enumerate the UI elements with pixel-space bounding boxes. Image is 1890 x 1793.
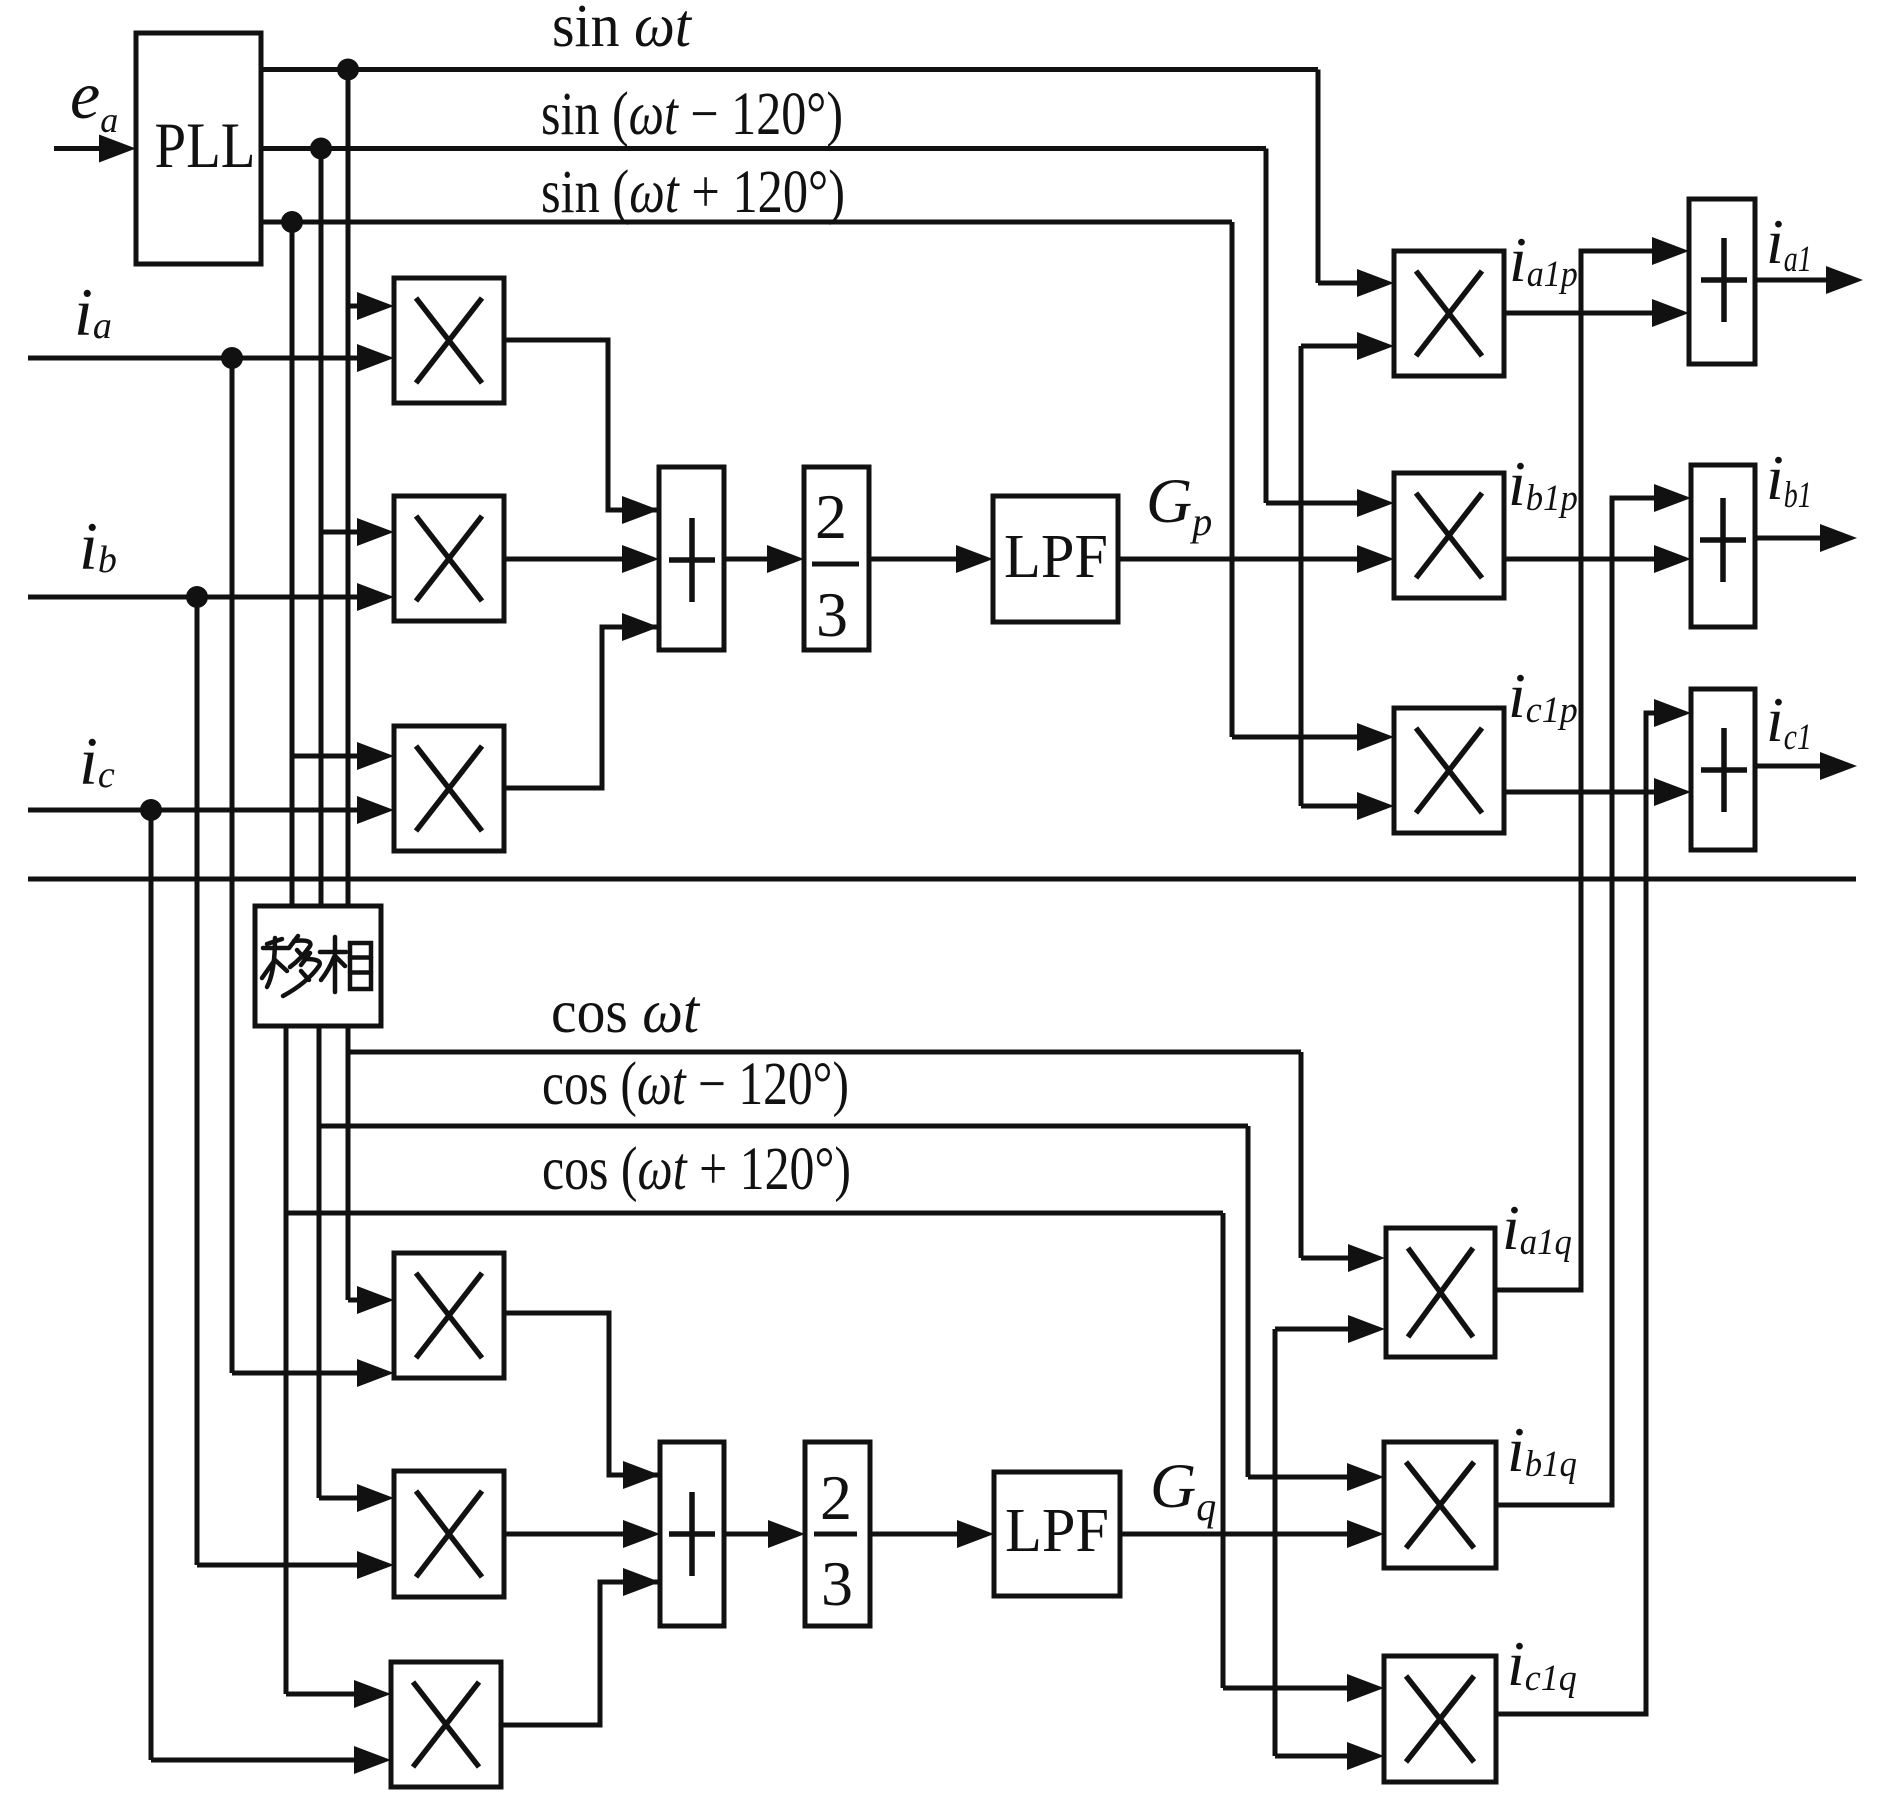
wire M7 output to adder A3	[504, 1313, 660, 1475]
wire i_c1 output arrow	[1755, 752, 1857, 780]
wire G_q rail into multiplier M10b input 2	[1120, 1520, 1384, 1548]
svg-text:Gp: Gp	[1146, 465, 1212, 544]
svg-text:3: 3	[821, 1548, 853, 1619]
wire i_a vertical drop	[230, 358, 235, 1373]
wire M9 output to adder A3	[501, 1582, 660, 1725]
svg-text:2: 2	[815, 481, 847, 552]
wire cos(wt+120) into multiplier M10c input 1	[1223, 1674, 1384, 1702]
wire adder A3 output to gain 2/3	[724, 1520, 805, 1548]
wire sin(wt-120) right drop	[1264, 149, 1269, 504]
node i_c tap	[140, 799, 162, 821]
node sin(wt-120) tap	[310, 138, 332, 160]
svg-text:LPF: LPF	[1004, 523, 1108, 591]
low-pass filter LPF1	[993, 496, 1118, 622]
wire cos(wt+120) into multiplier M9 input 1	[286, 1680, 391, 1708]
multiplier M4c (sin(wt+120) x G_p) -> i_c1p	[1394, 708, 1504, 833]
wire cos(wt) horizontal rail	[348, 1050, 1301, 1055]
PLL block U1	[136, 33, 261, 264]
adder A2a (i_a1p + i_a1q)	[1689, 199, 1755, 364]
svg-text:ib1p: ib1p	[1508, 448, 1578, 519]
wire i_c input	[28, 796, 394, 824]
multiplier M10a (cos wt x G_q) -> i_a1q	[1386, 1228, 1495, 1357]
multiplier M10c (cos(wt+120) x G_q) -> i_c1q	[1384, 1656, 1496, 1782]
wire i_b input	[28, 583, 394, 611]
svg-text:ic1p: ic1p	[1508, 660, 1578, 731]
wire G_p tap into multiplier M4c input 2	[1301, 792, 1394, 820]
svg-text:ia1q: ia1q	[1502, 1192, 1572, 1263]
wire sin(wt+120) from PLL	[261, 220, 1232, 225]
wire sin(wt-120) from PLL	[261, 146, 1266, 151]
wire sin(wt+120) vertical drop	[290, 222, 295, 906]
wire i_a input	[28, 344, 394, 372]
wire i_c into multiplier M9 input 2	[151, 1746, 391, 1774]
gain fraction bar	[814, 1532, 857, 1537]
wire sin(wt-120) into multiplier M5 input 1	[1266, 489, 1394, 517]
multiplier M4b (sin(wt-120) x G_p) -> i_b1p	[1394, 473, 1504, 598]
wire M8 output to adder A3	[504, 1520, 660, 1548]
wire M2 output to adder A1	[504, 545, 659, 573]
wire i_c1p output to adder A2c	[1504, 778, 1691, 806]
wire sin(wt) from PLL	[261, 67, 1318, 72]
wire i_b1 output arrow	[1755, 524, 1857, 552]
wire i_a1q vertical riser to adder A2a	[1495, 251, 1652, 1290]
wire sin wt stub into M1	[348, 292, 394, 320]
svg-text:ia1p: ia1p	[1509, 224, 1578, 295]
node sin(wt) tap	[337, 59, 359, 81]
wire cos(wt) from phase-shift down	[346, 1026, 351, 1300]
wire G_p rail into multiplier M4b input 2	[1118, 545, 1394, 573]
multiplier M9 (i_c x cos(wt+120))	[391, 1662, 501, 1787]
wire i_b vertical drop	[195, 597, 200, 1565]
svg-text:ib1q: ib1q	[1507, 1414, 1577, 1485]
gain block 2/3 (bottom)	[805, 1442, 870, 1626]
wire cos(wt) into multiplier M7 input 1	[348, 1286, 394, 1314]
wire cos(wt-120) from phase-shift down	[317, 1026, 322, 1498]
phase-shift block (yi-xiang)	[255, 906, 381, 1026]
wire i_a1p output to adder A2a	[1504, 299, 1689, 327]
svg-text:ia: ia	[74, 274, 112, 350]
wire cos(wt-120) horizontal rail	[319, 1124, 1248, 1129]
wire i_c vertical drop	[149, 810, 154, 1760]
wire cos(wt) right drop	[1299, 1052, 1304, 1258]
wire G_q tap into multiplier M10c input 2	[1275, 1742, 1384, 1770]
multiplier M8 (i_b x cos(wt-120))	[394, 1471, 504, 1597]
multiplier M3 (i_c x sin(wt+120))	[394, 726, 504, 851]
multiplier M10b (cos(wt-120) x G_q) -> i_b1q	[1384, 1442, 1496, 1568]
wire cos(wt-120) right drop	[1246, 1126, 1251, 1477]
wire sin(wt) right drop	[1316, 70, 1321, 284]
wire cos(wt+120) right drop	[1221, 1213, 1226, 1688]
node i_a tap	[221, 347, 243, 369]
svg-text:ib1: ib1	[1766, 442, 1812, 516]
node sin(wt+120) tap	[281, 211, 303, 233]
svg-text:ia1: ia1	[1766, 206, 1812, 280]
multiplier M7 (i_a x cos wt)	[394, 1253, 504, 1378]
svg-text:ic1q: ic1q	[1507, 1628, 1577, 1699]
svg-text:ea: ea	[70, 57, 118, 140]
svg-text:PLL: PLL	[155, 110, 256, 182]
adder A2b (i_b1p + i_b1q)	[1691, 465, 1755, 627]
svg-text:ic1: ic1	[1766, 684, 1812, 758]
svg-text:cos (ωt − 120°): cos (ωt − 120°)	[542, 1051, 849, 1118]
svg-text:Gq: Gq	[1150, 1450, 1216, 1529]
adder A3 (summing block)	[660, 1442, 724, 1626]
wire sin(wt) vertical drop to phase-shift	[346, 70, 351, 907]
divider line between sin and cos sections	[28, 877, 1856, 882]
svg-text:cos (ωt + 120°): cos (ωt + 120°)	[542, 1136, 851, 1203]
svg-text:2: 2	[820, 1462, 852, 1533]
svg-text:sin (ωt + 120°): sin (ωt + 120°)	[541, 159, 845, 226]
wire gain output to LPF2	[870, 1520, 994, 1548]
low-pass filter LPF2	[994, 1472, 1120, 1596]
svg-text:cos ωt: cos ωt	[551, 979, 701, 1046]
wire sin(wt) into multiplier M4 input 1	[1318, 269, 1394, 297]
wire G_q tap into multiplier M10a input 2	[1275, 1315, 1385, 1343]
wire M3 output to adder A1	[504, 627, 659, 788]
svg-text:sin ωt: sin ωt	[552, 0, 693, 60]
gain 2/3 fraction bar	[812, 562, 859, 567]
wire adder A1 output to gain 2/3	[724, 545, 804, 573]
wire G_p tap into multiplier M4a input 2	[1301, 332, 1394, 360]
wire cos(wt-120) into multiplier M10b input 1	[1248, 1463, 1384, 1491]
adder A2c (i_c1p + i_c1q)	[1691, 689, 1755, 850]
multiplier M2 (i_b x sin(wt-120))	[394, 496, 504, 621]
wire sin(wt+120) into multiplier M6 input 1	[1232, 723, 1394, 751]
wire sin(wt+120) right drop	[1230, 222, 1235, 737]
wire M1 output to adder A1	[504, 340, 659, 510]
wire i_b1p output to adder A2b	[1504, 545, 1691, 573]
multiplier M1 (i_a x sin wt)	[394, 278, 504, 403]
wire e_a input arrow into PLL	[54, 135, 136, 163]
wire sin(wt-120) stub into M2	[321, 518, 394, 546]
wire cos(wt) into multiplier M10a input 1	[1301, 1244, 1385, 1272]
adder A1 (summing block)	[659, 467, 724, 650]
phase-shift block label (hand-drawn CJK strokes)	[262, 936, 371, 996]
svg-text:ib: ib	[79, 508, 117, 584]
wire i_a into multiplier M7 input 2	[232, 1359, 394, 1387]
wire cos(wt-120) into multiplier M8 input 1	[319, 1484, 394, 1512]
wire i_c1q vertical riser to adder A2c	[1496, 713, 1656, 1714]
wire i_b into multiplier M8 input 2	[197, 1551, 394, 1579]
wire cos(wt+120) horizontal rail	[286, 1211, 1223, 1216]
gain block 2/3	[804, 467, 869, 650]
svg-text:ic: ic	[79, 723, 115, 799]
node i_b tap	[186, 586, 208, 608]
wire sin(wt-120) vertical drop	[319, 149, 324, 907]
wire gain 2/3 output to LPF1	[869, 545, 993, 573]
wire G_q tap vertical	[1273, 1329, 1278, 1756]
svg-text:LPF: LPF	[1005, 1497, 1109, 1565]
multiplier M4a (sin wt x G_p) -> i_a1p	[1394, 251, 1504, 376]
wire sin(wt+120) stub into M3	[292, 742, 394, 770]
svg-text:3: 3	[816, 579, 848, 650]
wire G_p tap vertical	[1299, 346, 1304, 806]
wire i_b1q vertical riser to adder A2b	[1496, 498, 1654, 1505]
wire cos(wt+120) from phase-shift down	[284, 1026, 289, 1694]
wire i_a1 output arrow	[1755, 266, 1863, 294]
svg-text:sin (ωt − 120°): sin (ωt − 120°)	[541, 81, 843, 148]
